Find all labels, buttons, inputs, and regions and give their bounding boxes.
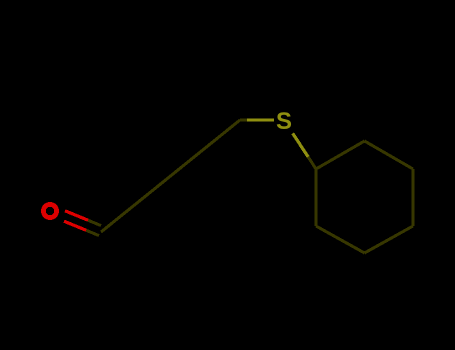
ring bond C-D right — [412, 169, 415, 226]
double bond C=O upper line dark half — [88, 220, 101, 225]
bond S-ring dark half — [308, 157, 316, 169]
ring bond D-E bottom-right — [365, 226, 414, 253]
double bond C=O lower line red half — [64, 221, 86, 230]
bond C4-S horizontal dark stub — [240, 119, 247, 122]
ring bond B-C top-right — [365, 141, 414, 169]
ring bond F-A left — [315, 169, 318, 226]
ring bond E-F bottom-left — [316, 226, 365, 253]
bond S-ring bright half — [293, 133, 308, 156]
double bond C=O upper line red half — [65, 211, 88, 220]
bond C4-S horizontal bright half — [247, 118, 274, 121]
svg-text:S: S — [276, 108, 292, 135]
double bond C=O lower line dark half — [86, 230, 99, 235]
atom O (aldehyde oxygen) — [43, 204, 56, 217]
chain bond C1-C4 straight diagonal (CH2 chain to sulfur) — [101, 120, 240, 232]
ring bond A-B top-left — [316, 141, 365, 169]
